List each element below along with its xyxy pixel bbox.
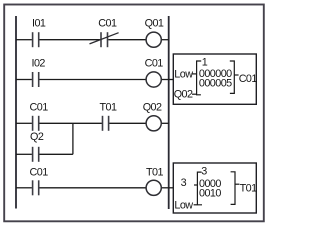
wire rung 3 — [16, 122, 169, 124]
wire rung 4 — [16, 187, 169, 189]
svg-text:C01: C01 — [98, 18, 117, 30]
contact C01 normally-closed — [90, 32, 119, 47]
wire parallel branch — [16, 153, 73, 155]
svg-text:C01: C01 — [239, 73, 258, 85]
svg-text:C01: C01 — [145, 58, 164, 70]
coil Q02 — [146, 116, 161, 131]
svg-text:T01: T01 — [240, 183, 257, 195]
contact C01 rung 4 — [33, 180, 39, 195]
contact T01 — [103, 116, 109, 131]
svg-text:Low: Low — [174, 200, 193, 212]
svg-text:Low: Low — [174, 69, 193, 81]
timer block T01 outline — [173, 163, 256, 213]
wire rung 2 — [16, 79, 169, 81]
wire rung 1 — [16, 39, 169, 41]
coil T01 — [146, 180, 161, 195]
svg-text:T01: T01 — [100, 102, 117, 114]
counter C01 left bracket — [197, 61, 202, 95]
svg-text:0010: 0010 — [199, 187, 221, 199]
coil Q01 — [146, 32, 161, 47]
coil C01 — [146, 72, 161, 87]
svg-text:C01: C01 — [30, 102, 49, 114]
contact I01 — [33, 32, 39, 47]
timer T01 right bracket — [231, 172, 235, 205]
svg-text:Q02: Q02 — [143, 102, 162, 114]
svg-text:3: 3 — [201, 166, 207, 178]
svg-text:000005: 000005 — [199, 78, 232, 90]
contact C01 rung 3 — [33, 116, 39, 131]
svg-text:Q01: Q01 — [145, 18, 164, 30]
wire T01 output dash — [235, 183, 239, 185]
svg-text:Q2: Q2 — [30, 131, 44, 143]
timer T01 left bracket — [197, 172, 202, 205]
left power rail — [15, 16, 17, 209]
svg-text:T01: T01 — [146, 167, 163, 179]
wire C01 output dash — [234, 74, 238, 76]
counter block C01 outline — [173, 54, 256, 104]
contact I02 — [33, 72, 39, 87]
svg-text:I02: I02 — [32, 58, 46, 70]
contact Q2 — [33, 147, 39, 162]
wire 3 input dash — [194, 184, 197, 186]
svg-text:C01: C01 — [30, 167, 49, 179]
svg-text:3: 3 — [181, 177, 187, 189]
svg-text:1: 1 — [202, 56, 208, 68]
wire branch junction riser — [72, 123, 74, 154]
counter C01 right bracket — [230, 61, 235, 93]
wire Q02 input dash — [192, 93, 197, 95]
svg-text:I01: I01 — [32, 18, 46, 30]
svg-text:Q02: Q02 — [174, 89, 193, 101]
right power rail — [168, 16, 170, 209]
wire stub rung 2 to counter block — [169, 79, 174, 81]
wire stub rung 4 to timer block — [169, 187, 174, 189]
wire Low input dash — [191, 73, 196, 75]
wire Low input dash timer — [194, 204, 198, 206]
